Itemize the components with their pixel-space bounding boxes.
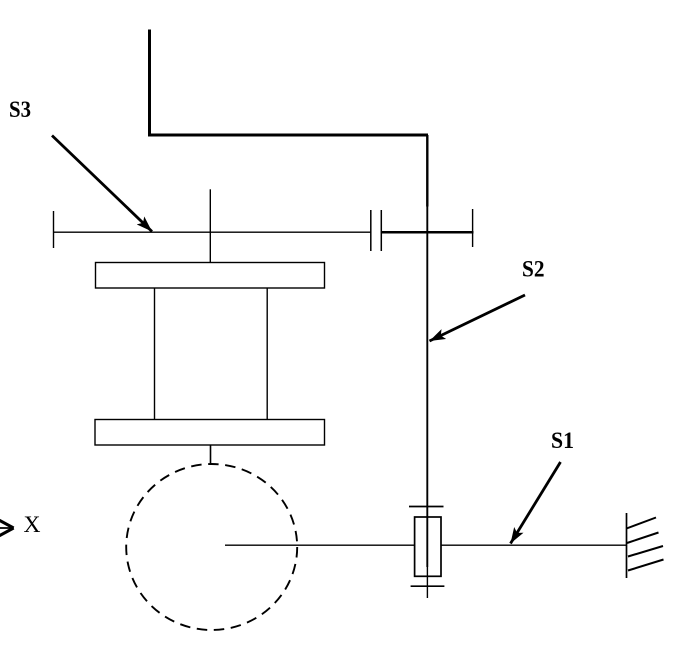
- drum body right wall: [266, 288, 268, 420]
- wall hatch 4: [628, 560, 664, 571]
- wall hatch 2: [627, 533, 659, 544]
- node: drum axle vertical line on shaft S3: [209, 189, 211, 262]
- drum body left wall: [154, 288, 156, 420]
- arrow from S1 label to shaft S1: [511, 462, 561, 544]
- coupling tick right (on shaft S3): [380, 210, 382, 251]
- arrow from S3 label to shaft S3: [52, 136, 152, 232]
- wire: middle of shaft S2: [426, 207, 428, 568]
- wall hatch 3: [628, 546, 663, 557]
- gear coupling box on S1/S2: [415, 517, 441, 576]
- shaft S1 left segment (from wheel centre to gear box): [225, 544, 415, 546]
- dashed circle: wheel: [126, 464, 297, 630]
- svg-text:X: X: [24, 512, 41, 538]
- coupling tick left (on shaft S3): [370, 210, 372, 251]
- svg-text:S3: S3: [9, 97, 31, 123]
- arrow from S2 label to shaft S2: [430, 295, 526, 341]
- X axis arrow (clipped at left edge): [0, 527, 14, 529]
- svg-text:S2: S2: [522, 257, 545, 283]
- fixed wall support: vertical line: [626, 513, 628, 578]
- shaft S2 vertical wire: [426, 135, 428, 207]
- drum top flange: [96, 263, 325, 289]
- svg-text:S1: S1: [551, 428, 574, 454]
- shaft S1 right segment (gear box to wall): [441, 544, 627, 546]
- shaft S3 horizontal thin segment: [53, 231, 371, 233]
- wire: axle stub below drum: [210, 445, 212, 465]
- wire: thick L-shaped bracket from top to shaft S2: [150, 30, 429, 136]
- shaft S3 thick right segment: [381, 231, 474, 234]
- wall hatch 1: [627, 518, 657, 529]
- wire: thin lower end of shaft S2: [426, 567, 428, 598]
- gear tick above box: [409, 506, 444, 508]
- gear tick below box: [411, 585, 445, 587]
- bearing tick: left end of shaft S3: [53, 211, 55, 248]
- bearing tick: right end of shaft S3: [472, 209, 474, 247]
- drum bottom flange: [95, 420, 325, 446]
